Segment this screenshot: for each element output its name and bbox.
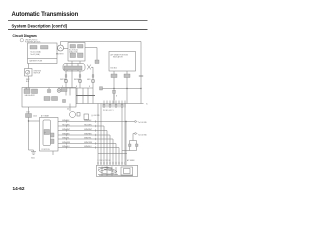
svg-text:GRN/BLK: GRN/BLK bbox=[62, 120, 70, 122]
svg-text:C425: C425 bbox=[33, 116, 37, 118]
svg-text:P: P bbox=[62, 86, 63, 88]
svg-text:RED/BLU: RED/BLU bbox=[74, 79, 81, 81]
svg-text:1 2 3 4 5 6 7 8 9 10: 1 2 3 4 5 6 7 8 9 10 bbox=[98, 160, 111, 162]
svg-text:N: N bbox=[89, 86, 90, 88]
svg-text:GRN/WHT: GRN/WHT bbox=[62, 129, 70, 131]
svg-text:SWITCH: SWITCH bbox=[34, 73, 41, 75]
svg-text:GRN/RED: GRN/RED bbox=[62, 133, 71, 135]
svg-text:G401: G401 bbox=[31, 158, 35, 160]
svg-text:YEL/GRN: YEL/GRN bbox=[62, 124, 70, 126]
svg-text:GRN/YEL: GRN/YEL bbox=[84, 137, 91, 139]
svg-text:WHT: WHT bbox=[26, 79, 30, 81]
svg-text:To D4 IND: To D4 IND bbox=[138, 122, 147, 124]
svg-text:GRN/BLU: GRN/BLU bbox=[62, 146, 70, 148]
svg-text:POSITION: POSITION bbox=[42, 149, 51, 151]
svg-text:Automatic Transmission: Automatic Transmission bbox=[12, 12, 79, 18]
svg-text:GRN/ORN: GRN/ORN bbox=[84, 142, 93, 144]
svg-text:B: B bbox=[116, 96, 117, 98]
svg-text:D4: D4 bbox=[67, 109, 69, 111]
svg-text:GRN/YEL: GRN/YEL bbox=[62, 137, 69, 139]
svg-text:INDICATOR: INDICATOR bbox=[113, 56, 123, 59]
svg-text:(+) D4 IND: (+) D4 IND bbox=[91, 115, 100, 117]
svg-text:BATTERY: BATTERY bbox=[56, 53, 65, 56]
svg-text:GRN: GRN bbox=[87, 79, 90, 81]
svg-text:FUSE/RELAY BOX: FUSE/RELAY BOX bbox=[25, 40, 41, 43]
svg-text:P R N D 4 3 2 1: P R N D 4 3 2 1 bbox=[103, 110, 114, 112]
svg-text:YEL/GRN: YEL/GRN bbox=[84, 124, 92, 126]
svg-text:GRN/BLU: GRN/BLU bbox=[84, 146, 92, 148]
svg-text:GRN/WHT: GRN/WHT bbox=[84, 129, 92, 131]
svg-text:WHT/BLU: WHT/BLU bbox=[60, 79, 67, 81]
svg-text:System Description (cont’d): System Description (cont’d) bbox=[12, 23, 68, 28]
svg-text:No.42 (40A): No.42 (40A) bbox=[31, 53, 41, 56]
svg-text:BATTERY FUSE: BATTERY FUSE bbox=[30, 60, 43, 63]
svg-text:A/T GEAR: A/T GEAR bbox=[41, 115, 50, 118]
svg-text:B10 B12: B10 B12 bbox=[111, 68, 118, 70]
svg-text:GRN/BLK: GRN/BLK bbox=[84, 120, 92, 122]
svg-text:C425: C425 bbox=[26, 111, 30, 113]
svg-text:No.25 No.32: No.25 No.32 bbox=[69, 50, 78, 52]
svg-text:14-62: 14-62 bbox=[13, 186, 25, 191]
svg-text:To: To bbox=[146, 104, 148, 106]
svg-text:Circuit Diagram: Circuit Diagram bbox=[13, 34, 37, 38]
svg-text:To D4 IND: To D4 IND bbox=[138, 134, 147, 136]
svg-text:GRN/RED: GRN/RED bbox=[84, 133, 93, 135]
svg-text:GRN/ORN: GRN/ORN bbox=[62, 142, 71, 144]
